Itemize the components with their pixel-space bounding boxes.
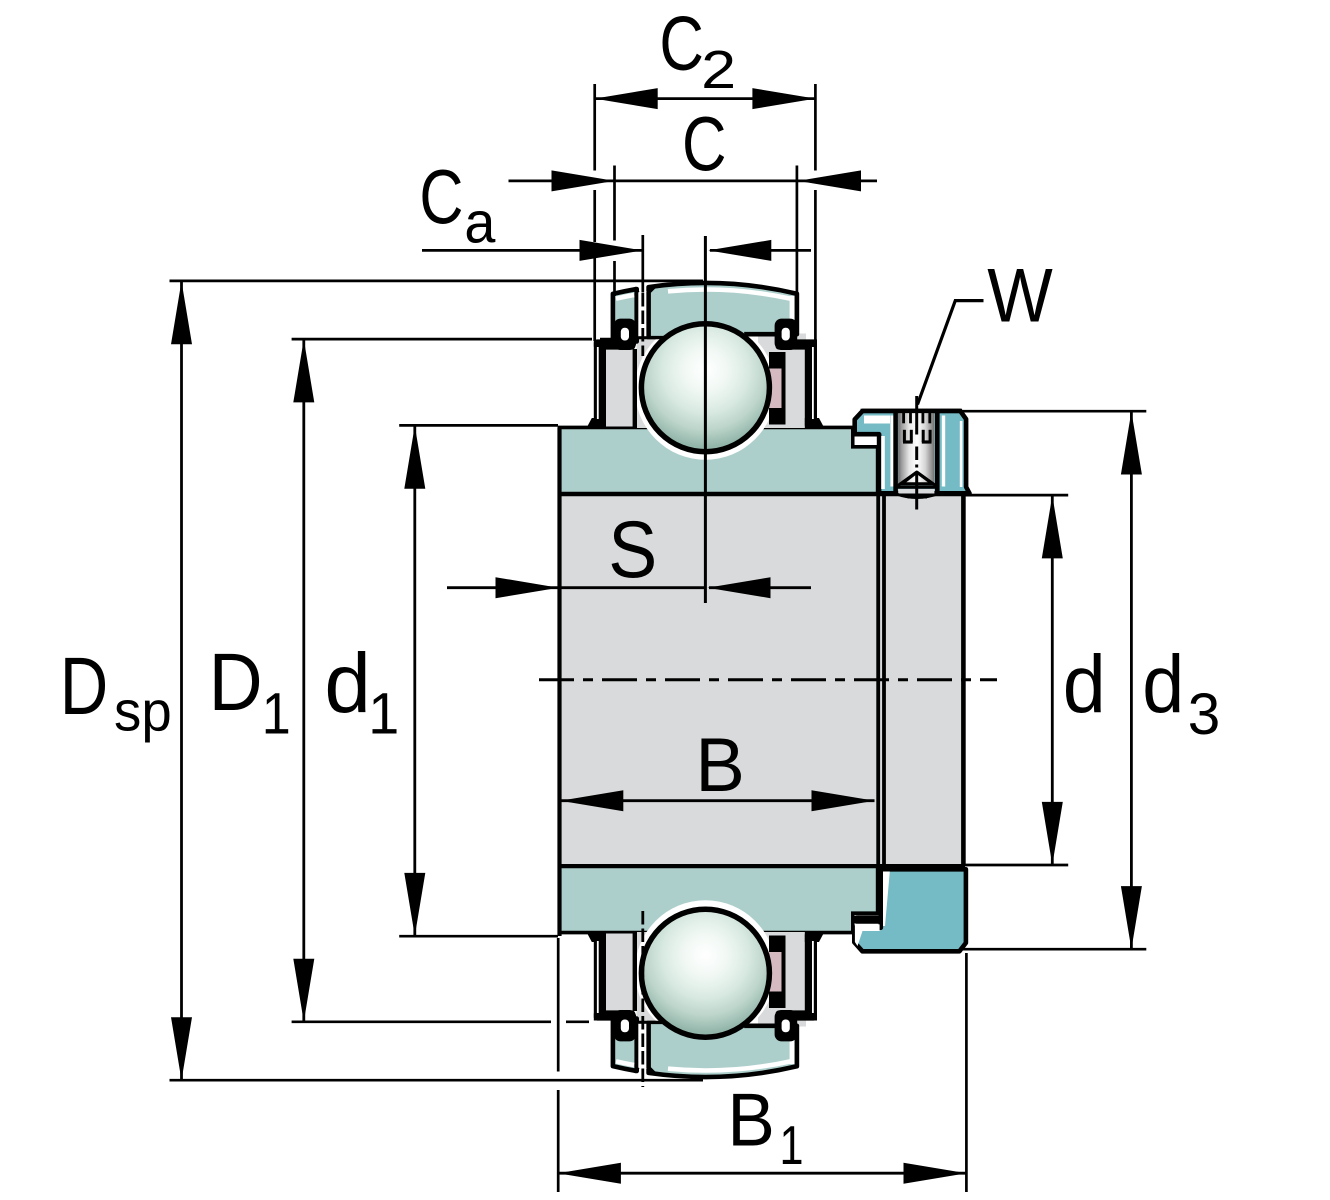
svg-text:B: B: [695, 723, 745, 808]
dimension d1: [399, 424, 558, 427]
svg-text:D: D: [60, 641, 109, 732]
inner ring / collar joint double line: [876, 494, 880, 866]
lubrication hole slot: [638, 1024, 646, 1069]
svg-text:sp: sp: [114, 680, 172, 744]
ball (lower): [641, 909, 769, 1037]
inner ring bore (front view, grey): [559, 494, 964, 866]
dimension B1: [557, 938, 560, 1072]
svg-text:3: 3: [1188, 682, 1221, 747]
outer ring (main section, light teal): [649, 1022, 797, 1077]
dimension d: [962, 494, 1068, 497]
screw hole bottom arc + crosshair: [896, 494, 939, 498]
cage cross-section (pink): [769, 352, 786, 425]
label W + leader: [918, 301, 984, 405]
svg-text:B: B: [727, 1077, 775, 1161]
svg-text:d: d: [1063, 639, 1106, 730]
svg-text:C: C: [659, 1, 704, 87]
dimension Dsp: [170, 280, 704, 283]
inner ring seat band (bottom): [560, 866, 878, 932]
inner ring raceway shoulders (grey): [637, 336, 682, 428]
seal + flinger (right, black): [776, 1010, 818, 1020]
screw cone point: [902, 472, 933, 484]
svg-text:1: 1: [780, 1114, 804, 1176]
inner ring right face: [961, 494, 966, 866]
eccentric locking collar (top section, teal): [855, 411, 970, 493]
svg-text:2: 2: [701, 40, 736, 100]
dimension C: [613, 166, 616, 241]
outer ring (main section, light teal): [649, 283, 797, 338]
svg-text:d: d: [1142, 639, 1184, 730]
ball center line (vertical): [704, 236, 707, 603]
center axis (dash-dot): [539, 678, 997, 681]
grub screw W (metallic): [898, 411, 934, 486]
dimension Ca: [641, 235, 644, 293]
dimension C2: [593, 84, 596, 171]
dimension d3: [957, 410, 1146, 413]
dimension D1: [292, 338, 592, 341]
inner ring bore outlines: [557, 427, 561, 936]
seal + flinger (left, black): [594, 1010, 636, 1020]
ball (upper): [641, 324, 769, 452]
dimension B: [560, 799, 874, 802]
svg-text:d: d: [324, 636, 371, 730]
seal + flinger (left, black): [594, 339, 636, 349]
cage cross-section (pink): [769, 936, 786, 1009]
inner ring seat band (top): [560, 427, 878, 493]
dimension S: [447, 586, 560, 589]
svg-text:1: 1: [262, 682, 291, 747]
outer ring (left seal-carrier piece): [613, 289, 637, 342]
lubrication hole slot: [638, 291, 646, 336]
svg-text:C: C: [682, 101, 727, 187]
lube hole center line top (dashed): [641, 293, 644, 356]
screw center line (dash): [915, 447, 918, 461]
outer ring (left seal-carrier piece): [613, 1019, 637, 1072]
svg-text:W: W: [987, 253, 1053, 338]
lube hole center line bottom (dashed): [641, 911, 644, 1087]
eccentric locking collar (bottom section, teal): [854, 869, 966, 951]
svg-text:D: D: [209, 637, 263, 728]
svg-text:C: C: [419, 154, 463, 240]
seal + flinger (right, black): [776, 339, 818, 349]
inner ring raceway shoulders (grey): [637, 932, 682, 1024]
svg-text:1: 1: [368, 682, 399, 747]
svg-text:a: a: [464, 190, 496, 255]
svg-text:S: S: [608, 505, 657, 595]
